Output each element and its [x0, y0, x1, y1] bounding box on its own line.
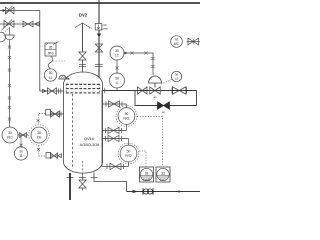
svg-text:FVT: FVT — [160, 178, 166, 182]
flange pair — [95, 63, 103, 65]
svg-text:35: 35 — [49, 46, 53, 50]
valve V14 — [109, 101, 120, 107]
signal dashed E to V2 — [3, 28, 10, 33]
svg-text:33: 33 — [161, 171, 165, 175]
signal dotted to FA — [39, 114, 46, 125]
valve V9 — [187, 41, 201, 43]
bottom centre drain valve — [82, 174, 84, 181]
valve V6 — [138, 87, 148, 94]
bottom product line — [127, 191, 201, 193]
svg-text:30: 30 — [8, 131, 12, 135]
svg-text:50: 50 — [125, 112, 129, 116]
branch3 — [102, 138, 129, 140]
signal wire LC to valve — [124, 53, 153, 75]
svg-text:FIC: FIC — [7, 136, 13, 140]
wire line1 top-left — [0, 10, 40, 12]
instrument circle FR1 — [118, 108, 135, 125]
recorder box1 — [140, 167, 154, 182]
valve V3 — [23, 21, 33, 27]
svg-text:FR1: FR1 — [123, 117, 130, 121]
flow arrow — [3, 9, 7, 12]
valve V10 (vertical) — [79, 180, 86, 188]
flange pair — [79, 63, 86, 65]
seal pot D1 — [5, 35, 14, 40]
bottoms wire to pump line — [94, 173, 127, 192]
feed line into vessel — [40, 90, 64, 92]
solenoid vent assembly — [39, 145, 46, 156]
valve V16 — [108, 135, 119, 141]
svg-text:LC: LC — [115, 54, 120, 58]
instrument circle E (edge) — [0, 32, 6, 42]
header pipe right of vessel — [101, 91, 103, 167]
main vapour pipe — [103, 90, 197, 92]
wire vertical x39 — [39, 11, 41, 92]
valve V11 — [51, 111, 60, 117]
vessel T-01 shell — [64, 83, 103, 163]
svg-text:11: 11 — [49, 76, 53, 80]
svg-text:FWR: FWR — [143, 178, 151, 182]
pointer wire to dome — [65, 77, 70, 79]
svg-text:30: 30 — [37, 131, 41, 135]
recorder box2 — [156, 167, 170, 182]
instrument circle MC top right — [171, 36, 183, 48]
valve V17 — [110, 163, 121, 169]
instrument circle C4 — [44, 69, 56, 81]
signal dotted FR1 to recorder box2 — [137, 117, 163, 167]
svg-text:pww: pww — [103, 27, 108, 30]
valve V4b (vertical) — [95, 44, 102, 52]
valve V2 — [4, 21, 14, 28]
wire LC-LI — [116, 60, 118, 73]
instrument box B1 — [45, 43, 56, 56]
valve V1 — [6, 7, 15, 14]
branch4 — [102, 166, 129, 168]
seal blob — [59, 75, 67, 79]
instrument circle FR2 — [120, 145, 137, 162]
svg-text:QV16: QV16 — [84, 137, 94, 141]
svg-text:50: 50 — [127, 150, 131, 154]
wire stem to seal pot — [9, 27, 11, 35]
svg-text:11: 11 — [19, 154, 23, 158]
svg-text:33: 33 — [145, 171, 149, 175]
siphon coil — [48, 56, 53, 69]
wire left standpipe — [9, 40, 11, 127]
bypass wire — [135, 91, 197, 106]
branch2 — [102, 130, 127, 132]
valve V5 — [48, 88, 57, 94]
svg-text:DV2: DV2 — [79, 13, 88, 18]
valve V4 (vertical) — [79, 52, 86, 60]
branch1 — [102, 103, 127, 105]
vent symbol — [75, 23, 90, 28]
vent line DV2 — [82, 24, 84, 52]
svg-text:FA: FA — [37, 136, 42, 140]
valve V13 — [51, 153, 58, 159]
instrument circle LI — [110, 73, 125, 88]
PSE box — [95, 24, 102, 31]
svg-text:MC: MC — [174, 42, 180, 46]
top boundary pipe (dark) — [0, 2, 200, 4]
svg-text:L5: L5 — [175, 77, 179, 81]
valve V15 — [108, 127, 119, 133]
wire corner down — [196, 91, 198, 106]
svg-text:30: 30 — [49, 71, 53, 75]
svg-text:A/1BO-3O8: A/1BO-3O8 — [80, 143, 100, 147]
gas line nozzle B — [98, 0, 100, 77]
valve V12 — [20, 133, 27, 138]
svg-text:30: 30 — [115, 49, 119, 53]
instrument circle LC — [110, 46, 124, 60]
svg-text:LI: LI — [116, 81, 119, 85]
arrow into header — [35, 22, 40, 26]
wire line2 top-left — [0, 23, 40, 25]
svg-text:FR2: FR2 — [125, 154, 132, 158]
inline spool — [142, 188, 144, 194]
wire between I1-I2 — [18, 134, 28, 136]
bottom left outlet (dark) — [67, 177, 74, 179]
valve V7 — [173, 87, 187, 94]
valve V8 (dark) — [158, 102, 170, 109]
solenoid drain line y114 — [51, 113, 64, 115]
demister dashed internals — [66, 84, 100, 93]
instrument circle LY — [171, 71, 181, 81]
instrument circle I1 FIC — [2, 127, 18, 143]
control valve CV1 — [150, 87, 160, 94]
instrument circle I3 — [14, 147, 27, 160]
signal dotted FR2 to recorder box1 — [139, 151, 146, 167]
flow arrow down — [97, 34, 101, 38]
dip tube dashed — [72, 94, 74, 169]
svg-text:30: 30 — [115, 77, 119, 81]
svg-text:JPG: JPG — [47, 52, 54, 56]
instrument circle I2 FA with dotted box — [29, 125, 50, 146]
